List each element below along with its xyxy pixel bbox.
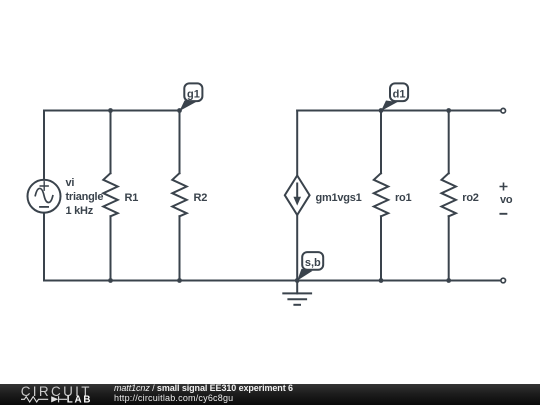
voltage source vi <box>28 180 61 213</box>
value label vi triangle 1 kHz <box>66 177 104 217</box>
junction R1 bottom <box>108 278 113 283</box>
wire R2 top <box>179 111 181 174</box>
label gm1vgs1 <box>316 192 362 204</box>
node d1 <box>381 83 408 111</box>
wire bottom rail <box>44 280 501 282</box>
svg-text:R1: R1 <box>125 192 139 204</box>
junction R2 top (node g1 dot) <box>177 108 182 113</box>
wire top-left rail <box>44 110 180 112</box>
svg-text:1 kHz: 1 kHz <box>66 205 94 217</box>
svg-text:g1: g1 <box>187 89 200 101</box>
resistor R1 <box>103 173 117 216</box>
junction ro2 top <box>446 108 451 113</box>
svg-text:vo: vo <box>500 194 513 206</box>
junction ground (node s,b dot) <box>295 278 300 283</box>
terminal vo+ <box>501 108 506 113</box>
polarity marks <box>500 183 506 214</box>
schematic credit text <box>114 384 293 403</box>
node g1 <box>180 83 203 111</box>
svg-text:s,b: s,b <box>305 257 321 269</box>
junction R2 bottom <box>177 278 182 283</box>
resistor ro2 <box>442 173 456 216</box>
wire R2 bottom <box>179 216 181 280</box>
junction ro1 top (node d1 dot) <box>379 108 384 113</box>
dependent current source gm1vgs1 <box>285 176 310 216</box>
wire ro2 bottom <box>448 216 450 280</box>
label R1 <box>125 192 139 204</box>
junction ro1 bottom <box>379 278 384 283</box>
label ro1 <box>395 192 412 204</box>
wire ro1 top <box>380 111 382 174</box>
wire vi bottom <box>43 213 45 281</box>
junction R1 top <box>108 108 113 113</box>
svg-text:ro1: ro1 <box>395 192 412 204</box>
wire R1 bottom <box>110 216 112 280</box>
ground <box>283 281 311 305</box>
wire R1 top <box>110 111 112 174</box>
svg-text:triangle: triangle <box>66 191 104 203</box>
wire vi top <box>43 111 45 180</box>
svg-text:LAB: LAB <box>67 395 92 405</box>
resistor R2 <box>172 173 186 216</box>
label vo + polarity <box>500 194 513 206</box>
resistor ro1 <box>374 173 388 216</box>
svg-text:ro2: ro2 <box>462 192 479 204</box>
svg-text:gm1vgs1: gm1vgs1 <box>316 192 362 204</box>
node s,b <box>297 252 323 281</box>
wire gm1vgs1 bottom <box>296 215 298 281</box>
wire top-right rail <box>297 110 500 112</box>
wire ro2 top <box>448 111 450 174</box>
label ro2 <box>462 192 479 204</box>
svg-text:d1: d1 <box>393 89 406 101</box>
footer bar <box>0 384 540 405</box>
wire ro1 bottom <box>380 216 382 280</box>
CircuitLab logo <box>0 384 110 405</box>
label R2 <box>194 192 208 204</box>
wire gm1vgs1 top <box>296 111 298 176</box>
terminal vo- <box>501 278 506 283</box>
junction ro2 bottom <box>446 278 451 283</box>
svg-text:R2: R2 <box>194 192 208 204</box>
svg-text:vi: vi <box>66 177 75 189</box>
